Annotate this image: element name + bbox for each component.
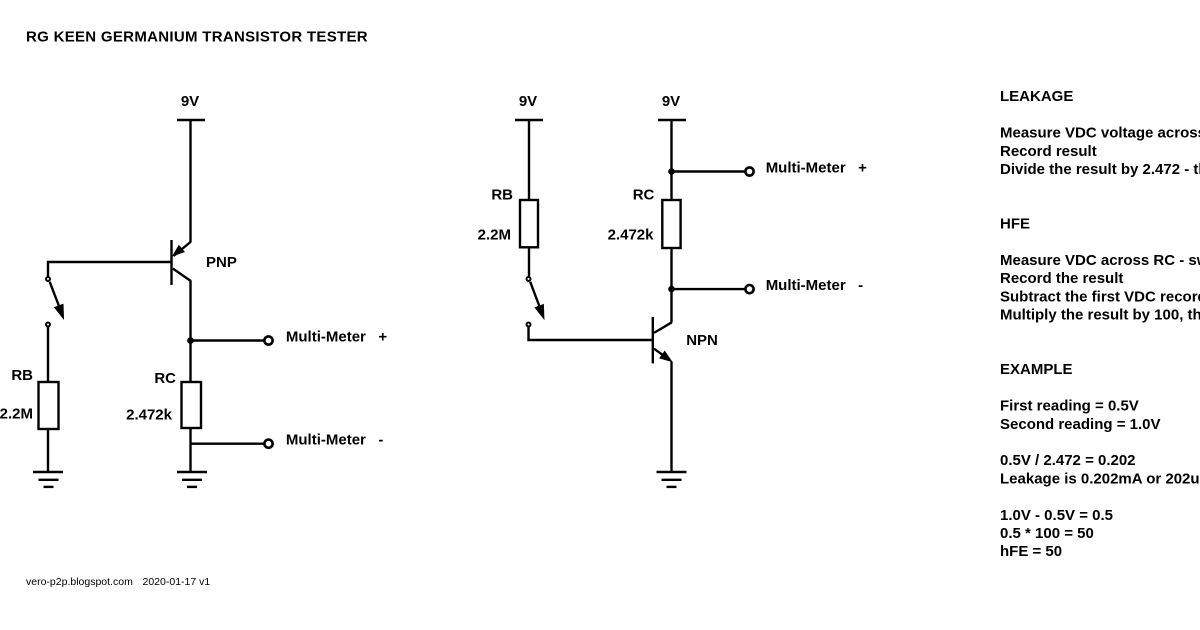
svg-text:Divide the result by 2.472 - t: Divide the result by 2.472 - this is the… (1000, 161, 1200, 178)
svg-text:HFE: HFE (1000, 216, 1030, 233)
svg-text:2.2M: 2.2M (478, 227, 511, 244)
switch S2 blade (530, 282, 541, 311)
svg-text:RB: RB (11, 367, 33, 384)
svg-text:RG KEEN GERMANIUM TRANSISTOR T: RG KEEN GERMANIUM TRANSISTOR TESTER (26, 29, 368, 46)
power supply 9V bar (PNP) (177, 119, 205, 121)
svg-text:LEAKAGE: LEAKAGE (1000, 88, 1073, 105)
switch S1 bottom terminal circle (46, 323, 50, 327)
svg-text:Leakage is 0.202mA or 202uA: Leakage is 0.202mA or 202uA (1000, 470, 1200, 487)
wire: RC bottom tee to Multi-Meter - terminal (191, 443, 265, 445)
svg-text:RC: RC (154, 370, 176, 387)
wire: 9V to RB (NPN) (528, 120, 530, 200)
switch S2 bottom terminal circle (527, 323, 531, 327)
svg-text:0.5 * 100 = 50: 0.5 * 100 = 50 (1000, 525, 1094, 542)
wire: RB to ground (47, 429, 49, 471)
transistor Q1 PNP emitter diagonal (174, 242, 191, 256)
svg-text:2.2M: 2.2M (0, 406, 33, 423)
svg-text:NPN: NPN (686, 332, 718, 349)
transistor Q2 NPN base bar (652, 317, 654, 363)
power supply 9V bar (NPN RB) (515, 119, 543, 121)
svg-text:EXAMPLE: EXAMPLE (1000, 361, 1073, 378)
svg-text:Record the result: Record the result (1000, 270, 1123, 287)
wire: junction to Multi-Meter + terminal (NPN) (672, 170, 746, 172)
transistor Q2 NPN emitter diagonal (654, 349, 666, 358)
svg-text:1.0V - 0.5V = 0.5: 1.0V - 0.5V = 0.5 (1000, 507, 1113, 524)
svg-text:Multi-Meter -: Multi-Meter - (286, 431, 384, 448)
svg-text:Multi-Meter -: Multi-Meter - (766, 277, 864, 294)
switch S1 blade (50, 282, 61, 310)
wire: junction to Multi-Meter - terminal (NPN) (672, 288, 746, 290)
transistor Q1 PNP collector diagonal (173, 269, 191, 282)
switch S2 blade arrowhead (535, 305, 544, 319)
terminal circle Multi-Meter + (NPN) (745, 167, 753, 175)
svg-text:Second reading = 1.0V: Second reading = 1.0V (1000, 416, 1160, 433)
svg-text:2.472k: 2.472k (608, 227, 655, 244)
wire: junction to Multi-Meter + terminal (191, 339, 265, 341)
ground under RB (PNP) (33, 472, 63, 487)
wire: collector of Q1 down to RC (189, 281, 191, 383)
wire: 9V to RC (NPN) (670, 120, 672, 200)
svg-text:vero-p2p.blogspot.com: vero-p2p.blogspot.com (26, 576, 133, 588)
svg-text:Measure VDC voltage across RC: Measure VDC voltage across RC (1000, 125, 1200, 142)
svg-text:First reading = 0.5V: First reading = 0.5V (1000, 398, 1139, 415)
svg-text:9V: 9V (662, 93, 680, 110)
wire: switch S2 to base of Q2 (529, 327, 652, 340)
ground under Q2 emitter (NPN) (657, 472, 687, 487)
svg-text:Subtract the first VDC recorde: Subtract the first VDC recorded value (1000, 288, 1200, 305)
transistor Q2 NPN emitter arrowhead (points away from base) (660, 352, 671, 362)
svg-text:2020-01-17 v1: 2020-01-17 v1 (143, 576, 211, 588)
svg-text:2.472k: 2.472k (126, 407, 173, 424)
wire: 9V to emitter of Q1 (189, 120, 191, 243)
node: 9V / Multi-Meter + junction dot (NPN) (668, 168, 675, 175)
svg-text:0.5V / 2.472 = 0.202: 0.5V / 2.472 = 0.202 (1000, 452, 1136, 469)
terminal circle Multi-Meter + (PNP) (264, 336, 272, 344)
node: collector / Multi-Meter - junction dot (NPN) (668, 286, 675, 293)
resistor RC body (NPN) (662, 200, 680, 248)
resistor RB body (PNP) (39, 382, 59, 429)
switch S1 blade arrowhead (55, 305, 64, 319)
wire: emitter of Q2 to ground (670, 362, 672, 472)
wire: base of Q1 to switch S1 (48, 262, 171, 277)
wire: RC to ground (189, 428, 191, 471)
svg-text:Measure VDC across RC - switch: Measure VDC across RC - switch closed (1000, 252, 1200, 269)
svg-text:Multiply the result by 100, th: Multiply the result by 100, this is the … (1000, 307, 1200, 324)
svg-text:PNP: PNP (206, 254, 237, 271)
switch S2 top terminal circle (527, 277, 531, 281)
ground under RC (PNP) (177, 472, 207, 487)
switch S1 top terminal circle (46, 277, 50, 281)
wire: RC to collector of Q2 (670, 248, 672, 323)
wire: switch S1 to resistor RB (47, 327, 49, 382)
resistor RC body (PNP) (182, 382, 202, 428)
transistor Q2 NPN collector diagonal (654, 322, 672, 333)
terminal circle Multi-Meter - (PNP) (264, 440, 272, 448)
terminal circle Multi-Meter - (NPN) (745, 285, 753, 293)
svg-text:9V: 9V (519, 93, 537, 110)
resistor RB body (NPN) (520, 200, 538, 247)
node: collector junction dot (187, 337, 194, 344)
svg-text:Record result: Record result (1000, 143, 1097, 160)
svg-text:hFE = 50: hFE = 50 (1000, 543, 1062, 560)
svg-text:Multi-Meter +: Multi-Meter + (286, 328, 387, 345)
transistor Q1 PNP emitter arrowhead (points into base) (174, 246, 184, 255)
svg-text:9V: 9V (181, 93, 199, 110)
wire: RB to switch S2 (528, 247, 530, 276)
svg-text:RB: RB (491, 187, 513, 204)
power supply 9V bar (NPN RC) (658, 119, 686, 121)
svg-text:RC: RC (633, 187, 655, 204)
transistor Q1 PNP base bar (170, 240, 172, 285)
svg-text:Multi-Meter +: Multi-Meter + (766, 160, 867, 177)
